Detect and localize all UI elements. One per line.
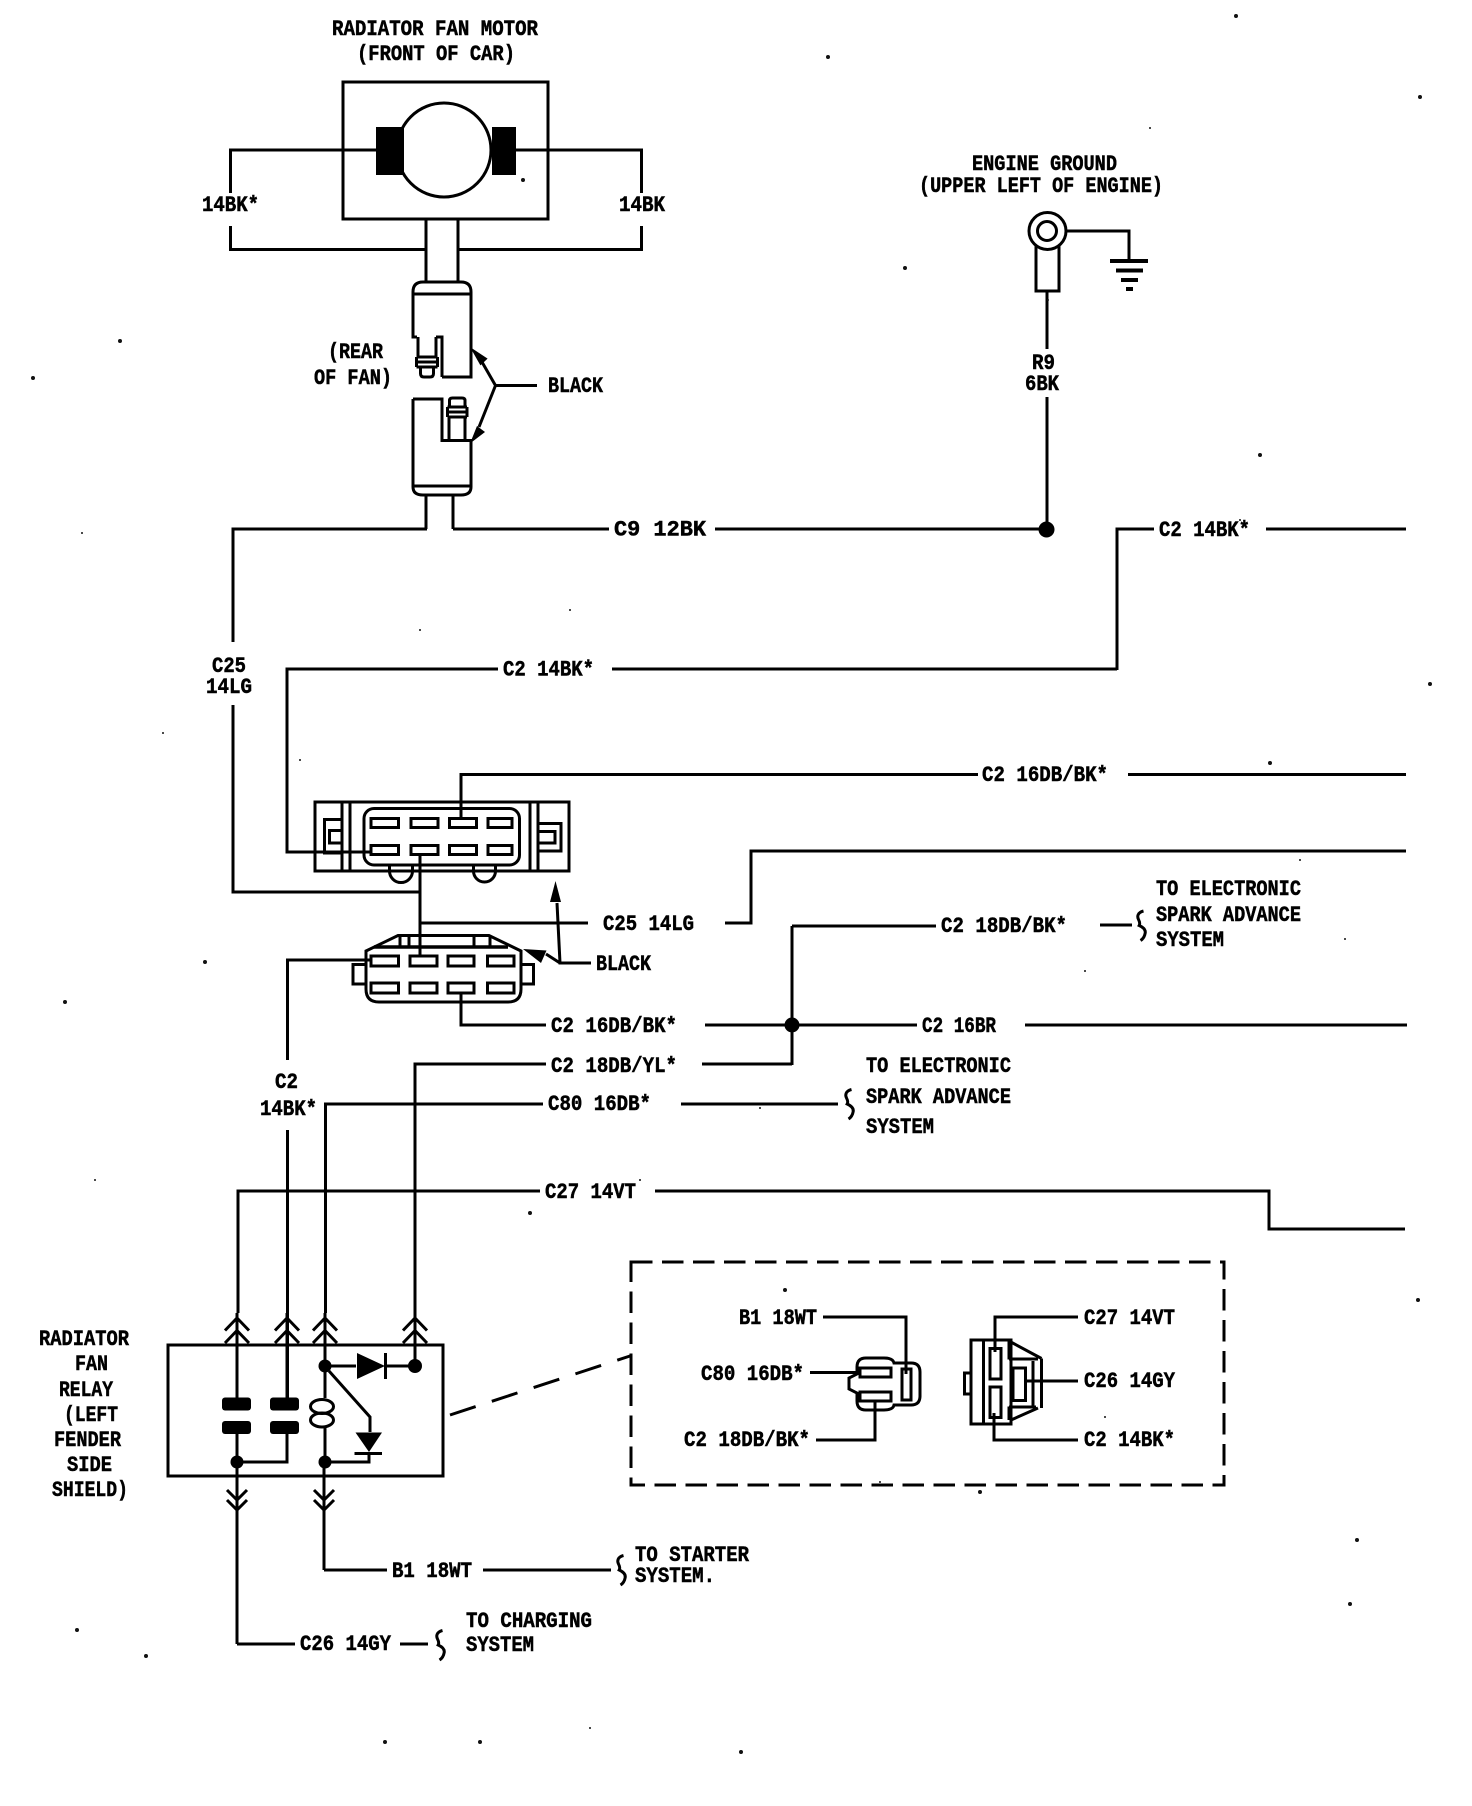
relay terminal chevrons (up) <box>225 1318 427 1343</box>
brace to starter <box>618 1556 625 1586</box>
svg-text:RADIATOR: RADIATOR <box>39 1327 130 1352</box>
svg-text:C2 18DB/BK*: C2 18DB/BK* <box>684 1428 810 1453</box>
label: RADIATOR FAN MOTOR title <box>332 17 539 67</box>
wire 14BK motor right <box>458 150 642 250</box>
connector C2 pins lower row <box>371 846 512 855</box>
label RADIATOR FAN RELAY (LEFT FENDER SIDE SHIELD) <box>39 1327 130 1503</box>
svg-text:C2 18DB/BK*: C2 18DB/BK* <box>941 914 1067 939</box>
svg-text:C2 18DB/YL*: C2 18DB/YL* <box>551 1054 677 1079</box>
wire C80 16DB* to spark advance <box>326 1104 839 1313</box>
wire C2 16DB/BK* lower with junction <box>461 993 1407 1025</box>
motor brush left <box>376 127 404 175</box>
inset dashed box <box>631 1262 1224 1485</box>
svg-text:B1 18WT: B1 18WT <box>739 1306 817 1331</box>
svg-text:C80 16DB*: C80 16DB* <box>701 1362 804 1387</box>
relay contact 1 <box>222 1398 251 1411</box>
svg-text:TO ELECTRONIC: TO ELECTRONIC <box>866 1054 1011 1079</box>
svg-text:14BK*: 14BK* <box>260 1097 317 1122</box>
connector bullet lower half <box>413 398 471 495</box>
svg-text:(FRONT OF CAR): (FRONT OF CAR) <box>357 42 515 67</box>
relay contact wires <box>237 1434 287 1462</box>
wire 14BK* motor left <box>231 150 427 250</box>
wire motor leads to connector <box>426 219 458 282</box>
svg-text:RADIATOR FAN MOTOR: RADIATOR FAN MOTOR <box>332 17 539 42</box>
svg-text:C27 14VT: C27 14VT <box>545 1180 636 1205</box>
relay connector (inset left) <box>849 1358 920 1410</box>
svg-text:C9 12BK: C9 12BK <box>614 518 707 543</box>
svg-text:SPARK ADVANCE: SPARK ADVANCE <box>866 1085 1011 1110</box>
svg-text:SIDE: SIDE <box>67 1453 112 1478</box>
relay contact 2 <box>270 1398 299 1411</box>
wire junction vertical <box>791 926 794 1065</box>
wire B1 18WT to starter <box>324 1569 611 1572</box>
junction dot <box>785 1018 800 1033</box>
zener D2 <box>329 1371 370 1432</box>
svg-text:RELAY: RELAY <box>59 1378 114 1403</box>
connector C2 pins upper row <box>371 819 512 828</box>
junction dot coil top <box>319 1360 332 1373</box>
connector pins upper row <box>371 956 514 966</box>
svg-text:BLACK: BLACK <box>548 374 604 399</box>
wire C2 14BK* to connector pin <box>287 669 1117 852</box>
relay output chevrons (down) <box>227 1490 334 1510</box>
svg-text:B1 18WT: B1 18WT <box>392 1559 472 1584</box>
svg-text:BLACK: BLACK <box>596 952 652 977</box>
svg-text:SPARK ADVANCE: SPARK ADVANCE <box>1156 903 1301 928</box>
motor brush right <box>492 127 516 175</box>
svg-text:C27 14VT: C27 14VT <box>1084 1306 1175 1331</box>
svg-text:6BK: 6BK <box>1025 372 1060 397</box>
brace to charging <box>437 1631 444 1661</box>
svg-text:FENDER: FENDER <box>54 1428 122 1453</box>
svg-text:C26 14GY: C26 14GY <box>1084 1369 1176 1394</box>
svg-text:(REAR: (REAR <box>328 340 384 365</box>
svg-text:C2: C2 <box>275 1070 298 1095</box>
junction dot diode out <box>408 1359 422 1373</box>
wire C2 14BK* upper right <box>1117 529 1406 670</box>
relay connector (inset right) <box>965 1340 1042 1424</box>
relay K1 box <box>168 1345 443 1476</box>
svg-text:C2 16BR: C2 16BR <box>922 1014 997 1039</box>
svg-text:SYSTEM: SYSTEM <box>866 1115 934 1140</box>
brace to spark advance <box>1138 911 1145 941</box>
wire C25 14LG label branch <box>420 851 1406 923</box>
wire stubs connector to C9/C25 <box>426 495 453 529</box>
svg-text:14BK*: 14BK* <box>202 193 259 218</box>
svg-text:SYSTEM: SYSTEM <box>466 1633 534 1658</box>
wire C26 14GY to charging <box>237 1643 428 1646</box>
connector pins lower row <box>371 983 514 993</box>
junction dot <box>231 1456 244 1469</box>
relay output wires <box>237 1462 324 1644</box>
connector bullet upper half <box>413 282 471 377</box>
svg-text:OF FAN): OF FAN) <box>314 366 392 391</box>
relay coil <box>324 1366 327 1462</box>
svg-text:FAN: FAN <box>75 1352 108 1377</box>
dashed leader line <box>450 1356 630 1415</box>
wire C2 16DB/BK* upper <box>461 775 1406 819</box>
svg-text:C2 16DB/BK*: C2 16DB/BK* <box>982 763 1108 788</box>
connector C2 engine-harness half (8-pin) <box>315 802 569 883</box>
wire R9 6BK engine ground <box>1046 291 1049 523</box>
junction dot ground node <box>1039 522 1055 538</box>
diode D1 <box>325 1365 356 1368</box>
wire C9 12BK <box>453 528 1039 531</box>
svg-text:14BK: 14BK <box>619 193 666 218</box>
brace to spark advance <box>846 1090 853 1120</box>
svg-text:(UPPER LEFT OF ENGINE): (UPPER LEFT OF ENGINE) <box>919 174 1163 199</box>
svg-text:C25 14LG: C25 14LG <box>603 912 694 937</box>
wires into relay <box>237 1313 415 1398</box>
svg-text:C26 14GY: C26 14GY <box>300 1632 392 1657</box>
wire C2 18DB/YL* <box>415 1064 792 1313</box>
wire C2 14BK* lower to relay <box>288 960 372 1398</box>
svg-text:SYSTEM: SYSTEM <box>1156 928 1224 953</box>
svg-text:SHIELD): SHIELD) <box>52 1478 128 1503</box>
junction dot coil bottom <box>319 1456 332 1469</box>
svg-text:C2 14BK*: C2 14BK* <box>1159 518 1250 543</box>
svg-text:C2 16DB/BK*: C2 16DB/BK* <box>551 1014 677 1039</box>
svg-text:TO ELECTRONIC: TO ELECTRONIC <box>1156 877 1301 902</box>
motor M1 radiator fan motor <box>343 82 548 219</box>
svg-text:C2 14BK*: C2 14BK* <box>1084 1428 1175 1453</box>
ring terminal engine ground <box>1029 213 1066 292</box>
ground symbol <box>1065 231 1148 289</box>
wire C25 pass-through connector pins <box>419 856 422 956</box>
wire C2 18DB/BK* to spark advance <box>792 925 1132 926</box>
svg-text:C80 16DB*: C80 16DB* <box>548 1092 651 1117</box>
svg-text:C2 14BK*: C2 14BK* <box>503 658 594 683</box>
wire C25 14LG vertical from connector <box>233 529 427 892</box>
svg-text:SYSTEM.: SYSTEM. <box>635 1564 715 1589</box>
svg-text:14LG: 14LG <box>206 675 252 700</box>
svg-text:TO CHARGING: TO CHARGING <box>466 1609 592 1634</box>
connector C2 body-harness half (8-pin) <box>353 936 534 1003</box>
wire C27 14VT <box>238 1191 1405 1313</box>
svg-text:(LEFT: (LEFT <box>64 1403 118 1428</box>
